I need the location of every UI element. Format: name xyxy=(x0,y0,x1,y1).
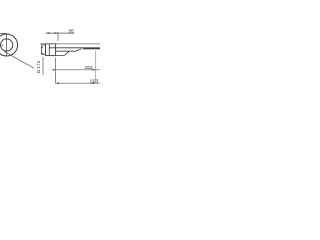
spout middle contour xyxy=(56,49,82,51)
spout lower contour xyxy=(56,51,69,55)
top dim extension line xyxy=(57,32,59,41)
threaded nipple xyxy=(42,45,46,54)
outer circle (escutcheon front view) xyxy=(0,34,18,56)
dim B line xyxy=(56,82,100,84)
extension line wall xyxy=(42,57,44,76)
svg-text:G1/2: G1/2 xyxy=(36,60,42,74)
svg-text:35: 35 xyxy=(69,28,75,34)
top dimension line xyxy=(46,32,75,34)
svg-text:153: 153 xyxy=(85,65,93,71)
dim A right arrow xyxy=(93,69,96,71)
horizontal centerline tick xyxy=(0,44,3,46)
dim A left arrow xyxy=(53,69,56,71)
escutcheon inner face xyxy=(48,44,50,56)
top dim left arrow xyxy=(46,32,50,34)
extension line tip xyxy=(95,51,97,83)
dim A line xyxy=(53,69,100,71)
escutcheon block side view xyxy=(46,44,56,56)
dim B left arrow xyxy=(56,82,59,84)
spout tip dark underside xyxy=(83,48,100,50)
extension line flange face xyxy=(55,58,57,84)
top dim right arrow xyxy=(55,32,59,34)
thread tick top xyxy=(41,46,43,48)
spout top line xyxy=(40,43,100,45)
thread tick bottom xyxy=(41,52,43,54)
inner circle (G1/2 inlet front view) xyxy=(1,39,13,51)
vertical centerline xyxy=(6,33,8,56)
leader line to G1/2 label xyxy=(4,51,34,68)
spout underside upper line xyxy=(49,47,100,49)
dim B right arrow xyxy=(93,82,96,84)
top tangent line xyxy=(0,32,7,34)
svg-text:153: 153 xyxy=(90,78,99,84)
